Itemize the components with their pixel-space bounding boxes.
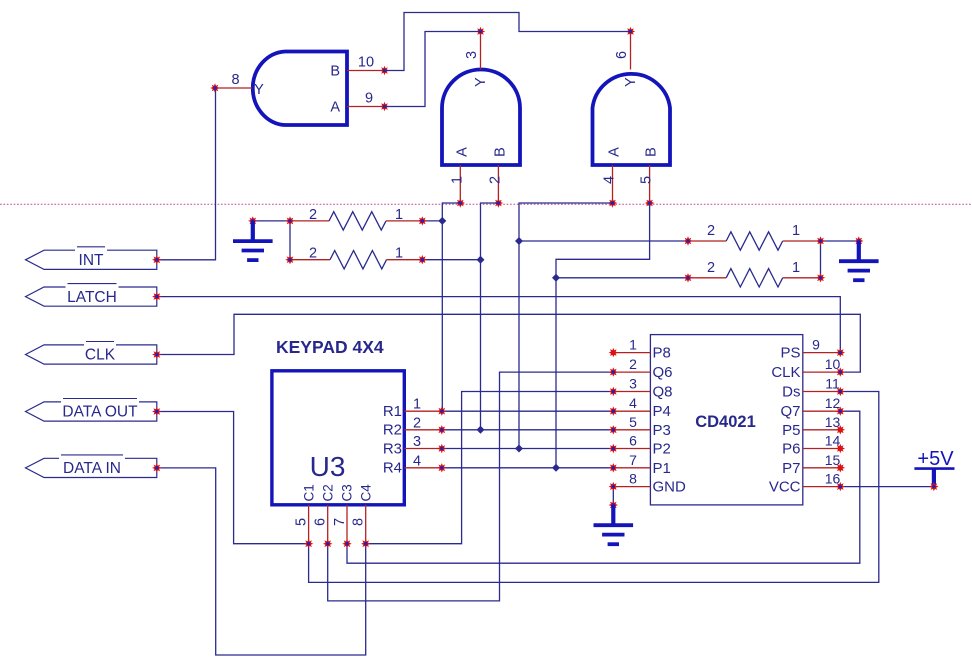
wire R3r pin1 to R4r pin1 — [820, 241, 822, 278]
U3 pin R4 dot — [437, 463, 446, 472]
U3 pin R2 dot — [437, 425, 446, 434]
wire net DATA OUT: port to U3 C1 — [157, 412, 309, 544]
CD4021 pin 1 dot — [609, 348, 618, 357]
CD4021 pin 6 dot — [609, 444, 618, 453]
wire G2 pin2 down to R2 row — [481, 203, 499, 430]
U3 pin R1 dot — [437, 407, 446, 416]
power +5V — [914, 448, 954, 491]
gate G2 body — [442, 70, 520, 166]
R3r pin2 stub — [688, 240, 726, 242]
svg-text:1: 1 — [413, 397, 421, 413]
R1l body — [329, 212, 386, 230]
svg-text:8: 8 — [231, 72, 239, 88]
G1 pin 10 dot — [380, 66, 389, 75]
svg-text:Y: Y — [473, 77, 489, 87]
AND gate G1 — [210, 52, 389, 126]
junction R1l pin1 / G2 pin1 net — [438, 217, 446, 225]
svg-text:DATA IN: DATA IN — [63, 460, 121, 477]
CD4021 pin 13 dot — [836, 425, 845, 434]
svg-text:1: 1 — [395, 246, 403, 262]
shift register CD4021 — [609, 335, 845, 505]
G2 pin 2 dot — [494, 198, 503, 207]
svg-text:R4: R4 — [383, 460, 402, 477]
wire CD4021 Q8 pin3 to U3 C4 — [366, 392, 614, 544]
svg-text:6: 6 — [614, 51, 630, 59]
wire branch to resistor R4r pin2 — [556, 277, 688, 279]
svg-text:KEYPAD 4X4: KEYPAD 4X4 — [276, 337, 384, 357]
CD4021 pin 15 dot — [836, 463, 845, 472]
svg-text:GND: GND — [653, 479, 687, 496]
junction G3 pin4 net / R3 row — [515, 445, 523, 453]
G3 pin 4 dot — [608, 198, 617, 207]
wire net INT: port to G1 pin8 — [157, 88, 216, 260]
G3 pin 4 stub — [612, 165, 614, 203]
gate G3 body — [593, 74, 671, 165]
U3 pin C3 stub — [346, 505, 348, 544]
G3 pin 5 dot — [645, 198, 654, 207]
junction G3 pin4 net / R3r pin2 — [515, 237, 523, 245]
port CLK — [26, 342, 162, 365]
R2l body — [330, 251, 387, 269]
svg-text:Y: Y — [254, 82, 264, 98]
wire net DATA IN: port to U3 C4 — [157, 468, 366, 655]
wire branch to resistor R3r pin2 — [519, 240, 688, 242]
CD4021 pin 16 (VCC) stub — [803, 486, 841, 488]
G1 pin 9 stub — [347, 106, 385, 108]
svg-text:PS: PS — [780, 345, 800, 362]
svg-text:R2: R2 — [383, 422, 402, 439]
svg-text:Q8: Q8 — [653, 384, 673, 401]
wire net CLK: port to CD4021 CLK pin10 — [157, 314, 861, 372]
svg-text:P4: P4 — [653, 403, 671, 420]
svg-text:Q7: Q7 — [780, 403, 800, 420]
wire U3 R2 to CD4021 P3 — [442, 429, 614, 431]
CD4021 pin 6 (P2) stub — [613, 448, 650, 450]
U3 pin C2 dot — [323, 539, 332, 548]
svg-text:Q6: Q6 — [653, 364, 673, 381]
R2l pin2 stub — [290, 259, 330, 261]
U3 pin R1 stub — [404, 410, 442, 412]
CD4021 pin 4 (P4) stub — [613, 410, 650, 412]
G2 pin 1 dot — [456, 198, 465, 207]
G3 output pin 6 stub — [630, 32, 632, 70]
R3r pin2 dot — [683, 236, 692, 245]
svg-text:P5: P5 — [782, 422, 800, 439]
U3 body — [272, 371, 404, 505]
svg-text:2: 2 — [309, 207, 317, 223]
CD4021 pin 9 (PS) stub — [803, 352, 841, 354]
R3r body — [726, 232, 783, 250]
svg-text:7: 7 — [332, 518, 348, 526]
svg-text:P6: P6 — [782, 441, 800, 458]
CD4021 pin 9 dot — [836, 348, 845, 357]
svg-text:2: 2 — [707, 223, 715, 239]
svg-text:4: 4 — [413, 453, 421, 469]
svg-text:8: 8 — [351, 518, 367, 526]
wire G3 pin4 down to R3 row — [519, 203, 613, 449]
svg-text:6: 6 — [313, 518, 329, 526]
resistor R2l (left bottom) — [285, 246, 427, 269]
port DATA IN — [26, 455, 162, 478]
wire G2 pin1 to U3 R1 — [442, 203, 460, 411]
svg-text:3: 3 — [413, 434, 421, 450]
svg-text:Y: Y — [623, 77, 639, 87]
wire ground to R1l pin2 — [253, 220, 290, 222]
U3 pin R3 stub — [404, 448, 442, 450]
svg-text:INT: INT — [79, 252, 105, 269]
wire net A: G1 pin9 to G2 pin3 — [385, 32, 481, 107]
svg-text:7: 7 — [629, 452, 637, 468]
U3 pin C1 dot — [304, 539, 313, 548]
G1 pin 8 stub — [215, 87, 252, 89]
wire U3 R1 to CD4021 P4 — [442, 410, 614, 412]
junction G3 pin5 net / R4r pin2 — [552, 274, 560, 282]
wire R1l pin2 to R2l pin2 — [289, 221, 291, 260]
CD4021 pin 4 dot — [609, 407, 618, 416]
svg-text:P7: P7 — [782, 460, 800, 477]
R4r pin1 stub — [783, 277, 821, 279]
wire net LATCH: port to CD4021 PS pin9 — [157, 297, 841, 353]
U3 pin C4 dot — [361, 539, 370, 548]
CD4021 pin 13 (P5) stub — [803, 429, 841, 431]
svg-text:1: 1 — [449, 176, 465, 184]
wire R3r pin1 to ground right — [821, 240, 859, 242]
wire CD4021 Q6 pin2 to U3 C2 — [328, 372, 614, 601]
svg-text:6: 6 — [629, 433, 637, 449]
+5V stem — [932, 469, 936, 487]
wire G3 pin5 down to R4 row — [556, 203, 650, 468]
CD4021 pin 14 dot — [836, 444, 845, 453]
svg-text:1: 1 — [395, 207, 403, 223]
R4r pin1 dot — [816, 273, 825, 282]
CD4021 pin 2 dot — [609, 367, 618, 376]
R2l pin1 stub — [387, 259, 423, 261]
svg-text:CLK: CLK — [85, 347, 116, 364]
svg-text:3: 3 — [464, 51, 480, 59]
CD4021 pin 2 (Q6) stub — [613, 371, 650, 373]
CD4021 pin 10 dot — [836, 367, 845, 376]
R4r pin2 dot — [683, 273, 692, 282]
U3 pin C3 dot — [342, 539, 351, 548]
wire CD4021 GND pin8 to ground — [612, 487, 614, 505]
R1l pin1 stub — [386, 220, 422, 222]
resistor R4r (right bottom) — [683, 260, 825, 287]
keypad U3 — [272, 337, 447, 549]
svg-text:C1: C1 — [301, 484, 316, 501]
svg-text:+5V: +5V — [917, 448, 954, 470]
CD4021 pin 1 (P8) stub — [613, 352, 650, 354]
svg-text:3: 3 — [629, 376, 637, 392]
svg-text:2: 2 — [413, 415, 421, 431]
wire CD4021 Ds pin11 to U3 C1 — [309, 392, 879, 583]
svg-text:B: B — [644, 147, 660, 157]
svg-text:B: B — [492, 147, 508, 157]
CD4021 pin 8 dot — [609, 482, 618, 491]
R3r pin1 dot — [816, 236, 825, 245]
svg-text:A: A — [454, 147, 470, 157]
svg-text:2: 2 — [629, 356, 637, 372]
G2 pin 2 stub — [497, 165, 499, 203]
R2l pin2 dot — [285, 255, 294, 264]
R4r body — [726, 269, 783, 287]
ground (left, by R1l) — [233, 216, 273, 260]
svg-text:1: 1 — [792, 223, 800, 239]
svg-text:1: 1 — [629, 337, 637, 353]
G1 pin 9 dot — [380, 102, 389, 111]
port LATCH — [26, 284, 162, 307]
CD4021 pin 7 dot — [609, 463, 618, 472]
CD4021 body — [650, 335, 802, 505]
svg-text:2: 2 — [707, 260, 715, 276]
junction G2 pin2 net / R2 row — [477, 426, 485, 434]
G3 pin 5 stub — [649, 165, 651, 203]
svg-text:4: 4 — [602, 176, 618, 184]
ground (right, by R3r) — [839, 236, 879, 280]
svg-text:1: 1 — [792, 260, 800, 276]
svg-text:Ds: Ds — [782, 384, 800, 401]
G2 output pin 3 stub — [480, 32, 482, 70]
svg-text:CD4021: CD4021 — [695, 413, 756, 431]
R4r pin2 stub — [688, 277, 726, 279]
CD4021 pin 5 (P3) stub — [613, 429, 650, 431]
svg-text:C3: C3 — [340, 484, 355, 501]
G3 pin 6 dot — [626, 27, 635, 36]
wire CD4021 Q7 pin12 to U3 C3 — [347, 411, 860, 563]
svg-text:P2: P2 — [653, 441, 671, 458]
ground (below CD4021 GND) — [594, 500, 634, 544]
CD4021 pin 15 (P7) stub — [803, 467, 841, 469]
svg-text:9: 9 — [365, 91, 373, 107]
svg-text:2: 2 — [309, 246, 317, 262]
svg-text:C2: C2 — [320, 484, 335, 501]
junction G3 pin5 net / R4 row — [552, 464, 560, 472]
svg-text:C4: C4 — [358, 484, 373, 502]
svg-text:CLK: CLK — [771, 364, 800, 381]
sheet boundary dotted line — [0, 203, 972, 205]
U3 pin C4 stub — [365, 505, 367, 544]
CD4021 pin 12 dot — [836, 407, 845, 416]
svg-text:9: 9 — [812, 337, 820, 353]
junction R2l pin1 / G2 pin2 net — [477, 256, 485, 264]
CD4021 pin 11 dot — [836, 387, 845, 396]
svg-text:R1: R1 — [383, 403, 402, 420]
port DATA OUT — [26, 399, 162, 422]
U3 pin C1 stub — [308, 505, 310, 544]
R1l pin2 stub — [290, 220, 329, 222]
wire resistor R1l pin1 to G2 pin1 net — [422, 220, 442, 222]
svg-text:5: 5 — [639, 176, 655, 184]
G2 pin 3 dot — [476, 27, 485, 36]
wire CD4021 VCC pin16 to +5V — [840, 486, 934, 488]
G1 pin 10 stub — [347, 70, 385, 72]
R1l pin2 dot — [285, 216, 294, 225]
svg-text:A: A — [330, 100, 340, 116]
svg-text:4: 4 — [629, 395, 637, 411]
svg-text:5: 5 — [629, 414, 637, 430]
CD4021 pin 8 (GND) stub — [613, 486, 650, 488]
wire U3 R3 to CD4021 P2 — [442, 448, 614, 450]
U3 pin R2 stub — [404, 429, 442, 431]
+5V bar — [914, 467, 954, 470]
CD4021 pin 3 (Q8) stub — [613, 391, 650, 393]
R3r pin1 stub — [783, 240, 821, 242]
CD4021 pin 7 (P1) stub — [613, 467, 650, 469]
AND gate G2 — [442, 27, 520, 208]
CD4021 pin 12 (Q7) stub — [803, 410, 841, 412]
svg-text:2: 2 — [487, 176, 503, 184]
AND gate G3 — [593, 27, 671, 208]
port INT — [26, 247, 162, 270]
svg-text:B: B — [330, 64, 340, 80]
svg-text:R3: R3 — [383, 440, 402, 457]
svg-text:8: 8 — [629, 471, 637, 487]
svg-text:LATCH: LATCH — [67, 289, 117, 306]
svg-text:A: A — [607, 147, 623, 157]
wire resistor R2l pin1 to G2 pin2 net — [422, 259, 480, 261]
R1l pin1 dot — [418, 216, 427, 225]
CD4021 pin 14 (P6) stub — [803, 448, 841, 450]
resistor R1l (left top) — [285, 207, 427, 230]
U3 pin C2 stub — [327, 505, 329, 544]
svg-text:VCC: VCC — [769, 479, 801, 496]
wire net B: G1 pin10 to G3 pin6 — [385, 13, 631, 71]
svg-text:P8: P8 — [653, 345, 671, 362]
CD4021 pin 5 dot — [609, 425, 618, 434]
svg-text:5: 5 — [294, 518, 310, 526]
G2 pin 1 stub — [459, 165, 461, 203]
R2l pin1 dot — [418, 255, 427, 264]
CD4021 pin 16 dot — [836, 482, 845, 491]
G1 pin 8 dot — [210, 83, 219, 92]
CD4021 pin 10 (CLK) stub — [803, 371, 841, 373]
svg-text:U3: U3 — [310, 451, 346, 482]
U3 pin R3 dot — [437, 444, 446, 453]
svg-text:10: 10 — [358, 55, 374, 71]
CD4021 pin 11 (Ds) stub — [803, 391, 841, 393]
svg-text:P1: P1 — [653, 460, 671, 477]
gate G1 body — [253, 52, 347, 126]
svg-text:DATA OUT: DATA OUT — [62, 404, 138, 421]
wire U3 R4 to CD4021 P1 — [442, 467, 614, 469]
resistor R3r (right top) — [683, 223, 825, 250]
CD4021 pin 3 dot — [609, 387, 618, 396]
svg-text:P3: P3 — [653, 422, 671, 439]
+5V pin dot — [929, 482, 938, 491]
U3 pin R4 stub — [404, 467, 442, 469]
